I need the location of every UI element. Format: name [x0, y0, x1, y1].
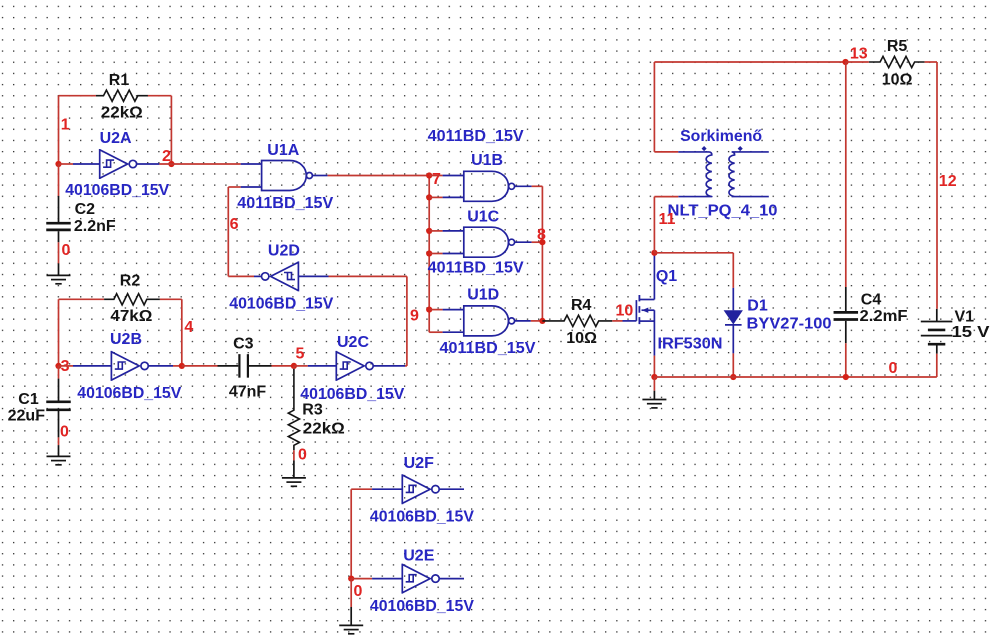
- svg-text:IRF530N: IRF530N: [658, 335, 723, 352]
- svg-text:R4: R4: [571, 297, 592, 314]
- svg-text:0: 0: [60, 423, 69, 440]
- transformer T1 primary winding: [678, 152, 712, 197]
- svg-text:22kΩ: 22kΩ: [101, 105, 143, 122]
- node 3: [61, 358, 70, 375]
- transformer T1 secondary phase dot: [738, 146, 743, 151]
- wire net2 right vertical: [170, 96, 172, 164]
- junction net0 at C4: [843, 374, 849, 380]
- value 22k&#937; of R1: [101, 105, 143, 122]
- junction net1 at U2A input: [55, 161, 61, 167]
- node 12: [939, 173, 957, 190]
- svg-text:U1B: U1B: [471, 152, 503, 169]
- capacitor C1: [46, 402, 71, 410]
- label U2B: [110, 331, 142, 348]
- nand U1B top input pin: [443, 175, 464, 177]
- inverter U2F output pin: [439, 488, 464, 490]
- svg-text:40106BD_15V: 40106BD_15V: [65, 182, 169, 199]
- svg-text:4: 4: [184, 319, 193, 336]
- node 0 bottom rail: [888, 360, 897, 377]
- inverter U2E: [402, 564, 439, 594]
- svg-text:22kΩ: 22kΩ: [303, 420, 345, 437]
- wire bus stub 3: [429, 230, 442, 232]
- svg-text:0: 0: [888, 360, 897, 377]
- nand gate U1B: [464, 171, 515, 201]
- junction net13 at top: [842, 59, 848, 65]
- node 13: [850, 45, 868, 62]
- resistor R4: [542, 315, 612, 326]
- svg-text:D1: D1: [747, 297, 768, 314]
- svg-text:U2B: U2B: [110, 331, 142, 348]
- wire net7 U1A out to bus: [328, 175, 430, 177]
- svg-text:40106BD_15V: 40106BD_15V: [229, 295, 333, 312]
- wire net11 D1 vertical: [732, 253, 734, 288]
- value 2.2nF of C2: [74, 218, 116, 235]
- wire net5 down to R3: [293, 366, 295, 369]
- inverter U2F input pin: [372, 488, 402, 490]
- label R1: [109, 72, 130, 89]
- part 40106BD_15V of U2E: [370, 598, 474, 615]
- svg-text:10: 10: [616, 302, 634, 319]
- nand U1B output pin: [515, 185, 532, 187]
- wire net13 down to C4: [845, 62, 847, 287]
- wire net11 primary bottom: [654, 196, 678, 198]
- svg-text:2: 2: [162, 148, 171, 165]
- nand U1D top input pin: [443, 309, 464, 311]
- inverter U2D output pin: [254, 275, 262, 277]
- svg-text:10Ω: 10Ω: [566, 330, 597, 347]
- part 40106BD_15V of U2B: [77, 385, 181, 402]
- transistor Q1 source stub: [639, 320, 654, 322]
- junction bus row4: [426, 250, 432, 256]
- wire net3 down to C1: [58, 366, 60, 379]
- label U1D: [467, 286, 499, 303]
- svg-text:2.2mF: 2.2mF: [860, 308, 908, 325]
- inverter U2C input pin: [308, 365, 337, 367]
- inverter U2E input pin: [372, 578, 402, 580]
- wire net13 top rail: [654, 61, 845, 63]
- junction net8 at U1C output: [539, 239, 545, 245]
- svg-text:1: 1: [61, 116, 70, 133]
- capacitor C2 bottom lead: [58, 231, 60, 242]
- wire bus stub 1: [429, 175, 442, 177]
- label U2C: [337, 334, 369, 351]
- nand U1B bottom input pin: [443, 196, 464, 198]
- inverter U2A: [100, 149, 137, 179]
- junction bus row2: [426, 194, 432, 200]
- svg-text:9: 9: [410, 307, 419, 324]
- node 7: [432, 171, 441, 188]
- wire net0 to ground: [653, 377, 655, 391]
- inverter U2D input pin: [298, 275, 328, 277]
- node 0 below C1: [60, 423, 69, 440]
- wire bus stub 5: [429, 309, 442, 311]
- svg-text:40106BD_15V: 40106BD_15V: [370, 598, 474, 615]
- transistor Q1 drain stub: [639, 299, 654, 301]
- wire net6 horizontal at U1A: [228, 186, 240, 188]
- transistor Q1 channel dashes: [638, 295, 640, 324]
- value 22uF of C1: [8, 408, 46, 425]
- nand U1A top input pin: [241, 163, 262, 165]
- transistor Q1 body stub with arrow: [642, 308, 655, 313]
- wire net2 to U1A: [159, 163, 240, 165]
- svg-text:47kΩ: 47kΩ: [110, 308, 152, 325]
- label D1: [747, 297, 768, 314]
- wire net13 left vertical: [653, 62, 655, 152]
- wire net0 U2E input horizontal: [351, 578, 372, 580]
- svg-text:C3: C3: [233, 335, 254, 352]
- wire net0 below C1: [58, 437, 60, 445]
- label Q1: [656, 268, 677, 285]
- wire net0 below C4: [845, 343, 847, 377]
- junction net0 at U2E: [348, 576, 354, 582]
- wire net0 below R3: [293, 450, 295, 460]
- node 1: [61, 116, 70, 133]
- transformer T1 secondary winding: [729, 152, 769, 197]
- node 11: [659, 211, 676, 228]
- wire net0 below C2: [58, 242, 60, 263]
- ground below U2E: [339, 607, 363, 634]
- inverter U2B input pin: [73, 365, 111, 367]
- resistor R3: [288, 369, 299, 450]
- svg-text:V1: V1: [955, 309, 975, 326]
- value 15 V of V1: [952, 324, 990, 341]
- part 4011BD_15V of U1B: [428, 128, 524, 145]
- svg-text:U2F: U2F: [404, 455, 434, 472]
- label R5: [887, 38, 908, 55]
- svg-text:6: 6: [230, 216, 239, 233]
- svg-text:10Ω: 10Ω: [882, 72, 913, 89]
- svg-text:15 V: 15 V: [952, 324, 990, 341]
- wire net1 R1 left horizontal: [59, 95, 96, 97]
- wire net0 below D1: [732, 353, 734, 377]
- junction net0 at source: [651, 374, 657, 380]
- nand gate U1C: [464, 227, 515, 257]
- capacitor C3: [239, 354, 248, 378]
- svg-text:U2E: U2E: [403, 547, 434, 564]
- node 9: [410, 307, 419, 324]
- wire net6 corner to U2D: [227, 187, 229, 276]
- junction bus row3: [426, 228, 432, 234]
- svg-text:Sorkimenő: Sorkimenő: [680, 128, 762, 145]
- wire net3 stub to U2B: [59, 365, 74, 367]
- label U2F: [404, 455, 434, 472]
- node 0 below C2: [62, 242, 71, 259]
- wire bus stub 6: [429, 331, 442, 333]
- resistor R5: [869, 56, 925, 67]
- junction net5: [291, 363, 297, 369]
- wire net0 source to rail: [653, 356, 655, 377]
- wire bus stub 2: [429, 196, 442, 198]
- part IRF530N of Q1: [658, 335, 723, 352]
- inverter U2C output pin: [374, 365, 406, 367]
- svg-text:R1: R1: [109, 72, 130, 89]
- capacitor C1 bottom lead: [58, 411, 60, 437]
- diode D1 cathode lead: [732, 288, 734, 310]
- wire net12 R5 right: [925, 61, 937, 63]
- wire net11 left vertical: [653, 197, 655, 253]
- svg-text:R2: R2: [120, 272, 141, 289]
- ground below C2: [47, 263, 71, 283]
- inverter U2E output pin: [439, 578, 464, 580]
- svg-text:U2C: U2C: [337, 334, 369, 351]
- svg-text:5: 5: [296, 345, 305, 362]
- svg-text:11: 11: [659, 211, 676, 228]
- wire bus stub 4: [429, 253, 442, 255]
- nand U1D bottom input pin: [443, 331, 464, 333]
- junction net10 at U1D output: [539, 318, 545, 324]
- part BYV27-100 of D1: [747, 315, 832, 332]
- part 4011BD_15V of U1D: [440, 340, 536, 357]
- svg-text:40106BD_15V: 40106BD_15V: [77, 385, 181, 402]
- label C4: [861, 292, 882, 309]
- wire net6 from U2D output: [228, 275, 254, 277]
- inverter U2F: [402, 474, 439, 504]
- wire net1 stub to U2A: [59, 163, 74, 165]
- svg-text:C2: C2: [75, 201, 96, 218]
- wire net4 right vertical: [181, 299, 183, 366]
- label R4: [571, 297, 592, 314]
- transformer T1 primary phase dot: [702, 146, 707, 151]
- label U1C: [467, 209, 499, 226]
- resistor R1: [96, 90, 148, 101]
- capacitor C4 top lead: [845, 287, 847, 311]
- capacitor C4: [834, 312, 859, 319]
- svg-text:U1A: U1A: [267, 142, 299, 159]
- svg-text:Q1: Q1: [656, 268, 677, 285]
- inverter U2B output pin: [149, 365, 173, 367]
- value 2.2mF of C4: [860, 308, 908, 325]
- node 6: [230, 216, 239, 233]
- svg-text:8: 8: [537, 227, 546, 244]
- svg-text:U1D: U1D: [467, 286, 499, 303]
- value 10&#937; of R5: [882, 72, 913, 89]
- nand U1A bottom input pin: [241, 186, 262, 188]
- wire net13 to primary top: [654, 151, 678, 153]
- svg-text:13: 13: [850, 45, 868, 62]
- svg-text:C4: C4: [861, 292, 882, 309]
- nand U1D output pin: [515, 320, 531, 322]
- resistor R2: [104, 294, 160, 305]
- svg-text:2.2nF: 2.2nF: [74, 218, 116, 235]
- wire net0 V1 bottom: [936, 354, 938, 377]
- svg-text:4011BD_15V: 4011BD_15V: [428, 128, 524, 145]
- wire net5 from C3: [272, 365, 294, 367]
- label C1: [18, 391, 39, 408]
- wire net1 left vertical: [58, 96, 60, 164]
- junction net0 at D1: [730, 374, 736, 380]
- transistor Q1 gate pin: [623, 320, 637, 322]
- ground below R3: [282, 460, 306, 486]
- wire net5 stub to U2C: [294, 365, 308, 367]
- part 4011BD_15V of U1C: [428, 259, 524, 276]
- label R2: [120, 272, 141, 289]
- transistor Q1 gate bar: [635, 300, 637, 321]
- part 4011BD_15V of U1A: [237, 195, 333, 212]
- ground below C1: [47, 445, 71, 465]
- diode D1 anode lead: [732, 325, 734, 354]
- wire net9 vertical: [406, 276, 408, 366]
- svg-text:40106BD_15V: 40106BD_15V: [300, 386, 404, 403]
- wire net8 U1B out corner: [532, 185, 543, 187]
- svg-text:NLT_PQ_4_10: NLT_PQ_4_10: [668, 203, 778, 220]
- junction net3 at U2B input: [55, 363, 61, 369]
- value 47k&#937; of R2: [110, 308, 152, 325]
- wire net2 R1 right horizontal: [148, 95, 172, 97]
- nand gate U1A: [262, 161, 313, 191]
- part 40106BD_15V of U2D: [229, 295, 333, 312]
- source V1 battery: [921, 322, 953, 345]
- wire net9 to U2D input: [329, 275, 407, 277]
- nand U1C output pin: [515, 241, 532, 243]
- wire net4 from U2B output: [173, 365, 182, 367]
- value 22k&#937; of R3: [303, 420, 345, 437]
- svg-text:40106BD_15V: 40106BD_15V: [370, 509, 474, 526]
- junction net2 at U2A output: [168, 161, 174, 167]
- node 4: [184, 319, 193, 336]
- diode D1: [724, 310, 743, 325]
- svg-text:0: 0: [298, 447, 307, 464]
- node 2: [162, 148, 171, 165]
- value 10&#937; of R4: [566, 330, 597, 347]
- label U2A: [100, 130, 132, 147]
- wire net3 left vertical: [58, 299, 60, 366]
- wire net0 down to ground: [350, 579, 352, 607]
- wire net7 bus vertical: [428, 176, 430, 333]
- capacitor C3 right lead: [249, 365, 272, 367]
- transistor Q1 drain lead: [653, 253, 655, 300]
- wire net3 R2 left horizontal: [59, 298, 105, 300]
- node 8: [537, 227, 546, 244]
- node 0 below R3: [298, 447, 307, 464]
- wire net0 bottom rail: [654, 376, 936, 378]
- svg-text:12: 12: [939, 173, 957, 190]
- svg-text:47nF: 47nF: [229, 383, 267, 400]
- label C2: [75, 201, 96, 218]
- svg-text:0: 0: [354, 583, 363, 600]
- capacitor C1 top lead: [58, 379, 60, 401]
- wire net9 U2C out corner: [405, 365, 407, 367]
- svg-text:22uF: 22uF: [8, 408, 46, 425]
- label V1: [955, 309, 975, 326]
- capacitor C4 bottom lead: [845, 321, 847, 343]
- wire net8 U1C out: [532, 241, 543, 243]
- part 40106BD_15V of U2C: [300, 386, 404, 403]
- inverter U2B: [111, 351, 148, 381]
- svg-text:7: 7: [432, 171, 441, 188]
- wire net10 R4 to gate: [612, 320, 622, 322]
- wire net4 to C3: [182, 365, 218, 367]
- label U2E: [403, 547, 434, 564]
- part NLT_PQ_4_10 of T1: [668, 203, 778, 220]
- value 47nF of C3: [229, 383, 267, 400]
- junction net4: [179, 363, 185, 369]
- op-amp U2A input pin: [73, 163, 100, 165]
- node 10: [616, 302, 634, 319]
- inverter U2A output pin: [137, 163, 160, 165]
- label C3: [233, 335, 254, 352]
- ground below Q1: [642, 391, 666, 408]
- wire net0 vertical U2EF: [350, 489, 352, 578]
- wire net1 down to C2: [58, 164, 60, 196]
- junction bus row1: [426, 172, 432, 178]
- wire net8 vertical: [541, 186, 543, 321]
- svg-text:U1C: U1C: [467, 209, 499, 226]
- svg-text:U2A: U2A: [100, 130, 132, 147]
- label U1B: [471, 152, 503, 169]
- part 40106BD_15V of U2F: [370, 509, 474, 526]
- wire net13 R5 left: [846, 61, 869, 63]
- label U1A: [267, 142, 299, 159]
- wire net10 U1D out: [531, 320, 543, 322]
- capacitor C2: [46, 223, 71, 230]
- label U2D: [268, 242, 300, 259]
- wire net4 R2 right horizontal: [160, 298, 182, 300]
- svg-text:4011BD_15V: 4011BD_15V: [237, 195, 333, 212]
- wire net11 to D1: [654, 252, 733, 254]
- wire net12 right vertical: [936, 62, 938, 309]
- label R3: [302, 402, 323, 419]
- node 5: [296, 345, 305, 362]
- junction net11 at drain: [651, 250, 657, 256]
- svg-text:R3: R3: [302, 402, 323, 419]
- svg-text:C1: C1: [18, 391, 39, 408]
- source V1 top lead: [936, 309, 938, 322]
- nand U1A output pin: [312, 175, 327, 177]
- svg-text:4011BD_15V: 4011BD_15V: [440, 340, 536, 357]
- transistor Q1 source lead: [653, 310, 655, 355]
- junction bus row5: [426, 307, 432, 313]
- source V1 bottom lead: [936, 344, 938, 354]
- nand U1C bottom input pin: [443, 253, 464, 255]
- inverter U2C: [336, 351, 373, 381]
- node 0 at U2E: [354, 583, 363, 600]
- svg-text:4011BD_15V: 4011BD_15V: [428, 259, 524, 276]
- wire net0 U2F input horizontal: [351, 488, 372, 490]
- svg-text:R5: R5: [887, 38, 908, 55]
- capacitor C3 left lead: [218, 365, 239, 367]
- svg-text:BYV27-100: BYV27-100: [747, 315, 832, 332]
- svg-text:U2D: U2D: [268, 242, 300, 259]
- capacitor C2 top lead: [58, 196, 60, 222]
- label Sorkimen&#246; of T1: [680, 128, 762, 145]
- nand U1C top input pin: [443, 230, 464, 232]
- svg-text:0: 0: [62, 242, 71, 259]
- inverter U2D mirrored: [262, 261, 299, 291]
- nand gate U1D: [464, 306, 515, 336]
- part 40106BD_15V of U2A: [65, 182, 169, 199]
